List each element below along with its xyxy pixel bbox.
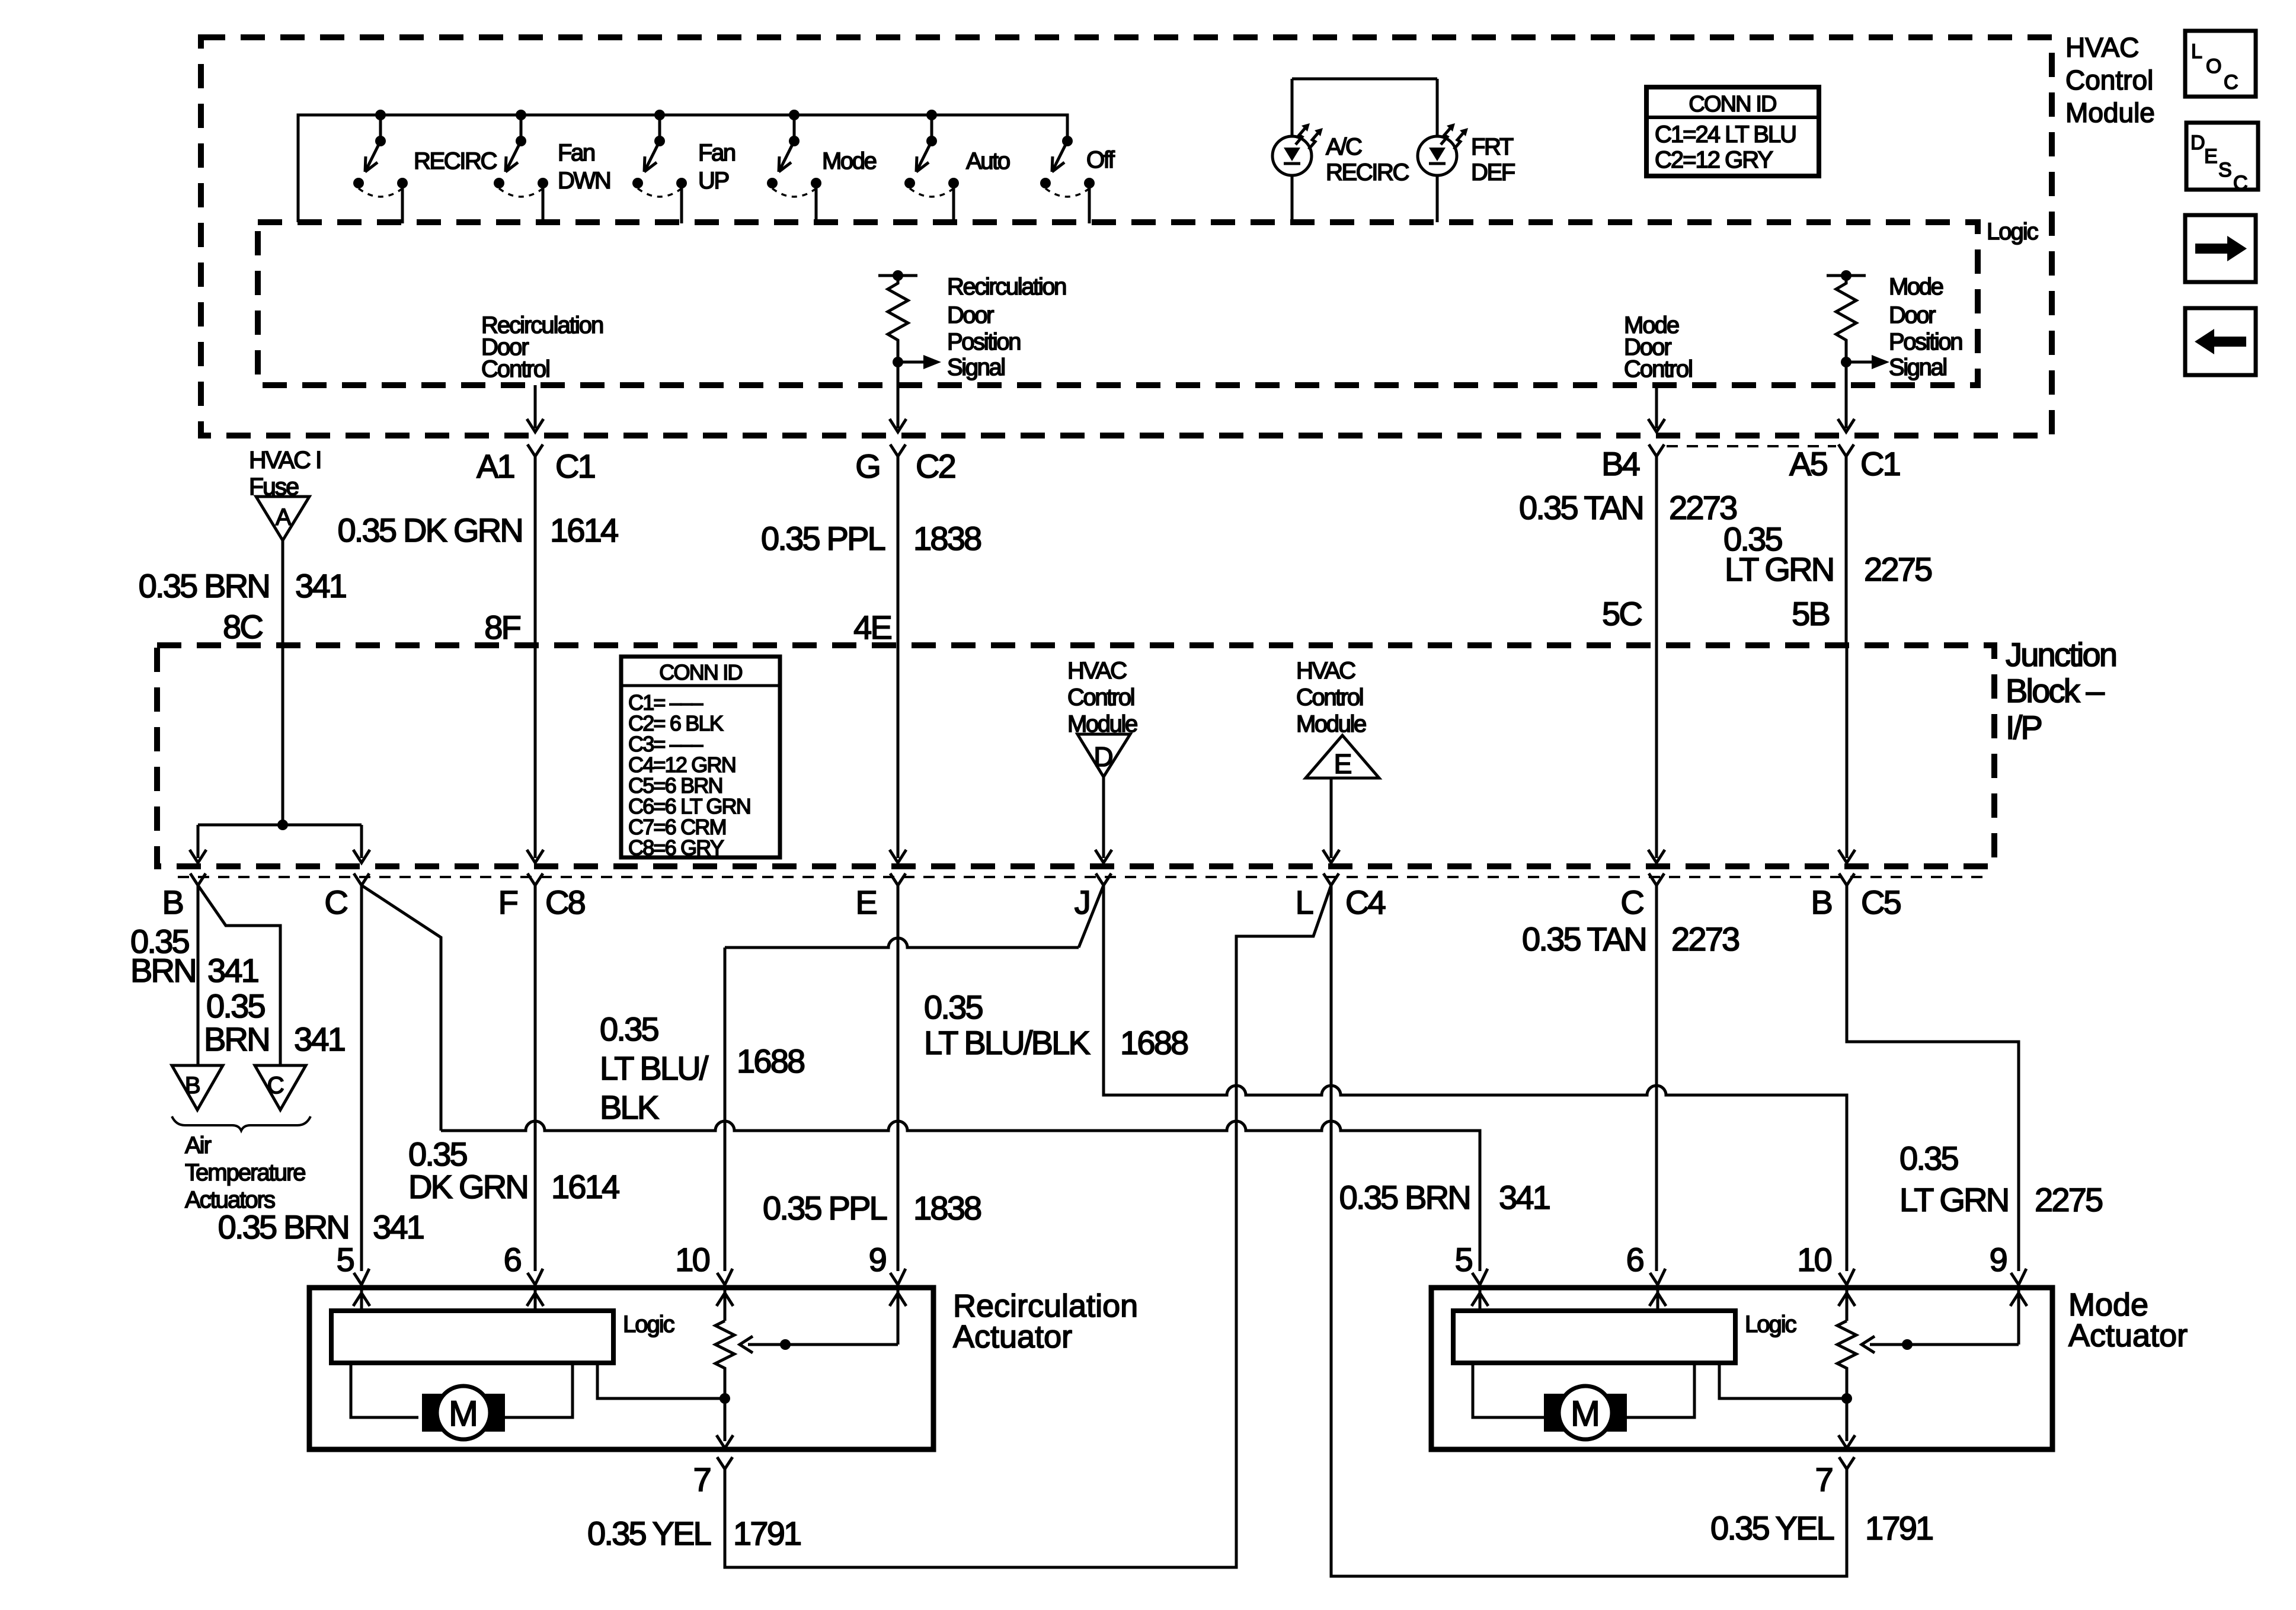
arrow recirculation pin 7 exit bbox=[717, 1435, 733, 1448]
wire switch bus bbox=[298, 115, 1067, 222]
svg-text:M: M bbox=[449, 1394, 478, 1433]
svg-text:Off: Off bbox=[1086, 147, 1115, 173]
LED FRT DEF bbox=[1418, 123, 1468, 175]
svg-text:Control: Control bbox=[481, 356, 549, 382]
svg-text:341: 341 bbox=[373, 1208, 424, 1246]
svg-text:0.35: 0.35 bbox=[206, 987, 264, 1025]
wire A5 to junction 5B bbox=[1845, 456, 1848, 645]
svg-text:B4: B4 bbox=[1601, 445, 1640, 482]
wire J to mode pin 10 bbox=[1104, 885, 1847, 1271]
svg-text:Module: Module bbox=[1296, 711, 1366, 737]
svg-text:C: C bbox=[267, 1073, 284, 1099]
svg-text:M: M bbox=[1571, 1394, 1600, 1433]
wire logic tap to potentiometer bbox=[597, 1363, 725, 1398]
svg-text:0.35 PPL: 0.35 PPL bbox=[763, 1189, 887, 1227]
wire B branch to actuator C bbox=[198, 885, 280, 1065]
svg-text:RECIRC: RECIRC bbox=[414, 148, 497, 174]
svg-text:C8: C8 bbox=[545, 884, 585, 921]
svg-text:C8=6 GRY: C8=6 GRY bbox=[628, 836, 724, 860]
arrow recirculation pin 5 entry bbox=[353, 1285, 370, 1311]
wiper arrow mode bbox=[1862, 1336, 2019, 1353]
svg-text:1614: 1614 bbox=[550, 511, 618, 549]
wire A1 output bbox=[534, 385, 537, 428]
svg-text:Temperature: Temperature bbox=[185, 1160, 305, 1186]
svg-text:1838: 1838 bbox=[913, 1189, 981, 1227]
wire A1 to junction 8F bbox=[534, 456, 537, 645]
triangle C air temperature actuator bbox=[255, 1065, 306, 1110]
svg-text:Auto: Auto bbox=[966, 148, 1010, 174]
switch Off bbox=[1040, 136, 1095, 223]
CONN ID table (junction block) bbox=[621, 657, 780, 860]
svg-text:B: B bbox=[162, 884, 183, 921]
svg-text:HVAC: HVAC bbox=[1067, 658, 1127, 684]
svg-text:1791: 1791 bbox=[733, 1515, 801, 1552]
svg-text:LT GRN: LT GRN bbox=[1900, 1181, 2008, 1218]
connector Y mode pin 5 bbox=[1472, 1269, 1488, 1285]
connector Y recirculation pin 10 bbox=[717, 1269, 733, 1285]
svg-text:0.35 YEL: 0.35 YEL bbox=[1710, 1509, 1834, 1547]
wire E to recirc pin 9 bbox=[897, 885, 900, 1271]
potentiometer mode bbox=[1837, 1321, 1856, 1441]
svg-text:0.35: 0.35 bbox=[600, 1010, 658, 1048]
node fuse bar junction bbox=[277, 820, 288, 830]
HVAC Control Module dashed box bbox=[201, 37, 2052, 436]
svg-text:341: 341 bbox=[294, 1020, 345, 1058]
arrow B (right) exit bbox=[1838, 850, 1855, 863]
svg-text:7: 7 bbox=[693, 1461, 711, 1498]
svg-text:0.35 BRN: 0.35 BRN bbox=[218, 1208, 348, 1246]
svg-text:LT BLU/BLK: LT BLU/BLK bbox=[924, 1024, 1091, 1061]
arrow recirculation pin 9 entry bbox=[890, 1285, 906, 1345]
svg-text:HVAC: HVAC bbox=[1296, 658, 1355, 684]
svg-text:2275: 2275 bbox=[1864, 550, 1932, 588]
connector Y mode pin 6 bbox=[1650, 1269, 1665, 1285]
wire fuse feed inside junction block bbox=[198, 645, 362, 858]
svg-text:C2: C2 bbox=[916, 447, 955, 485]
svg-text:Logic: Logic bbox=[1745, 1311, 1796, 1337]
connector Y E bbox=[890, 873, 906, 885]
svg-text:E: E bbox=[1334, 748, 1352, 779]
svg-text:BLK: BLK bbox=[600, 1089, 659, 1126]
switch Mode bbox=[767, 115, 821, 223]
connector Y G/C2 bbox=[890, 444, 906, 456]
connector Y A5/C1 bbox=[1838, 444, 1854, 456]
Recirculation actuator box bbox=[309, 1288, 933, 1449]
arrow C exit bbox=[353, 850, 370, 863]
svg-text:8C: 8C bbox=[223, 608, 263, 645]
svg-text:B: B bbox=[185, 1073, 200, 1099]
svg-text:8F: 8F bbox=[484, 609, 520, 646]
svg-text:BRN: BRN bbox=[130, 952, 196, 989]
svg-text:Control: Control bbox=[1296, 684, 1363, 710]
svg-text:LT GRN: LT GRN bbox=[1725, 550, 1833, 588]
svg-text:Control: Control bbox=[1624, 356, 1692, 382]
wire G output bbox=[897, 362, 900, 428]
svg-text:Logic: Logic bbox=[623, 1311, 674, 1337]
svg-text:C1: C1 bbox=[555, 447, 595, 485]
svg-text:A5: A5 bbox=[1789, 445, 1827, 482]
wire C branch to mode pin 5 bbox=[362, 885, 441, 1131]
switch Fan UP bbox=[632, 115, 687, 223]
svg-text:A: A bbox=[276, 504, 292, 530]
svg-text:E: E bbox=[855, 884, 876, 921]
svg-text:G: G bbox=[855, 447, 880, 485]
svg-text:Module: Module bbox=[2065, 97, 2155, 128]
right arrow box bbox=[2185, 215, 2256, 282]
arrow G bbox=[890, 419, 906, 432]
wire 5C pass-through bbox=[1655, 645, 1658, 858]
svg-text:D: D bbox=[2191, 132, 2205, 154]
junction block connector row thin dashed bbox=[178, 876, 1991, 878]
svg-text:Fan: Fan bbox=[698, 140, 735, 166]
svg-text:0.35 YEL: 0.35 YEL bbox=[587, 1515, 711, 1552]
svg-text:6: 6 bbox=[504, 1241, 521, 1278]
wire logic to motor right bbox=[505, 1363, 573, 1417]
svg-text:Signal: Signal bbox=[1889, 354, 1946, 380]
svg-text:Air: Air bbox=[185, 1132, 212, 1158]
wire B/C5 to mode pin 9 bbox=[1847, 885, 2019, 1271]
LOC box bbox=[2185, 31, 2256, 97]
svg-text:0.35 PPL: 0.35 PPL bbox=[761, 520, 885, 557]
connector Y mode pin 10 bbox=[1839, 1269, 1854, 1285]
DESC box bbox=[2186, 123, 2258, 194]
svg-text:Actuator: Actuator bbox=[953, 1319, 1072, 1355]
wire F/C8 to recirc pin 6 bbox=[534, 885, 537, 1271]
svg-text:Position: Position bbox=[1889, 329, 1962, 355]
svg-text:5B: 5B bbox=[1792, 595, 1829, 632]
arrow B4 bbox=[1648, 419, 1665, 432]
svg-text:10: 10 bbox=[675, 1241, 709, 1278]
connector Y B bbox=[190, 873, 206, 885]
wiper arrow recirculation bbox=[740, 1336, 898, 1353]
wire 5B pass-through bbox=[1846, 645, 1849, 858]
LED indicator assembly frame bbox=[1292, 79, 1437, 222]
svg-text:CONN ID: CONN ID bbox=[1689, 92, 1776, 117]
wire B to air temp actuator B bbox=[197, 885, 200, 1065]
svg-text:F: F bbox=[498, 884, 517, 921]
svg-text:Logic: Logic bbox=[1987, 219, 2038, 245]
triangle E HVAC Control Module bbox=[1296, 658, 1379, 863]
wire C to recirc pin 5 bbox=[360, 885, 363, 1271]
brace air temperature actuators bbox=[172, 1116, 311, 1131]
node bus junction dots bbox=[375, 110, 386, 120]
svg-text:Control: Control bbox=[2065, 65, 2153, 95]
mode logic block bbox=[1453, 1311, 1735, 1363]
left arrow box bbox=[2185, 308, 2256, 375]
potentiometer recirculation bbox=[715, 1321, 734, 1441]
arrow mode pin 9 entry bbox=[2010, 1285, 2027, 1345]
svg-text:C4: C4 bbox=[1345, 884, 1386, 921]
svg-text:0.35 TAN: 0.35 TAN bbox=[1519, 489, 1643, 526]
svg-text:Door: Door bbox=[947, 302, 994, 328]
svg-text:5: 5 bbox=[337, 1241, 354, 1278]
wire A5 output bbox=[1845, 362, 1848, 428]
svg-text:1791: 1791 bbox=[1865, 1509, 1933, 1547]
svg-text:CONN ID: CONN ID bbox=[659, 660, 742, 684]
svg-text:Block –: Block – bbox=[2006, 672, 2105, 709]
svg-text:Junction: Junction bbox=[2006, 636, 2116, 673]
svg-text:A1: A1 bbox=[477, 447, 514, 485]
wire logic tap to potentiometer bbox=[1719, 1363, 1847, 1398]
svg-text:DEF: DEF bbox=[1471, 159, 1515, 185]
wire B4 to junction 5C bbox=[1655, 456, 1658, 645]
wire L to recirc pin 7 bbox=[725, 885, 1331, 1567]
svg-text:Control: Control bbox=[1067, 684, 1134, 710]
svg-text:L: L bbox=[2191, 40, 2202, 63]
connector Y F/C8 bbox=[527, 873, 543, 885]
connector Y recirculation pin 5 bbox=[354, 1269, 369, 1285]
svg-text:0.35 DK GRN: 0.35 DK GRN bbox=[337, 511, 522, 549]
Mode actuator box bbox=[1431, 1288, 2052, 1449]
arrow B exit bbox=[190, 850, 206, 863]
svg-text:9: 9 bbox=[1990, 1241, 2007, 1278]
connector recirculation pin 7 bbox=[717, 1457, 733, 1469]
svg-text:C1: C1 bbox=[1860, 445, 1900, 482]
svg-text:341: 341 bbox=[1499, 1179, 1550, 1216]
svg-text:1838: 1838 bbox=[913, 520, 981, 557]
recirculation logic block bbox=[331, 1311, 613, 1363]
svg-text:C1=24 LT BLU: C1=24 LT BLU bbox=[1655, 121, 1796, 148]
svg-text:J: J bbox=[1075, 884, 1089, 921]
svg-text:HVAC: HVAC bbox=[2065, 32, 2139, 63]
connector Y recirculation pin 6 bbox=[527, 1269, 543, 1285]
arrow mode pin 5 entry bbox=[1472, 1285, 1488, 1311]
arrow recirculation pin 6 entry bbox=[527, 1285, 543, 1311]
svg-text:I/P: I/P bbox=[2006, 709, 2042, 746]
connector Y B4 bbox=[1649, 444, 1664, 456]
node potentiometer tap bbox=[720, 1393, 730, 1404]
wire 8F pass-through bbox=[534, 645, 537, 858]
wire logic to motor left bbox=[351, 1363, 418, 1417]
Junction Block dashed box bbox=[157, 645, 1994, 866]
connector Y C (right) bbox=[1649, 873, 1664, 885]
svg-text:HVAC I: HVAC I bbox=[249, 446, 321, 473]
wire J to recirc pin 10 bbox=[725, 885, 1104, 1271]
arrow mode pin 10 entry bbox=[1838, 1285, 1855, 1321]
svg-text:S: S bbox=[2218, 159, 2232, 181]
connector Y J bbox=[1096, 873, 1111, 885]
svg-text:C: C bbox=[2233, 172, 2248, 194]
triangle D HVAC Control Module bbox=[1067, 658, 1137, 863]
node wiper bbox=[780, 1339, 791, 1350]
svg-text:0.35: 0.35 bbox=[408, 1135, 466, 1173]
wire G to junction 4E bbox=[897, 456, 900, 645]
svg-text:A/C: A/C bbox=[1326, 134, 1362, 160]
svg-text:5C: 5C bbox=[1602, 595, 1642, 632]
svg-text:C: C bbox=[1620, 884, 1643, 921]
svg-text:2273: 2273 bbox=[1671, 920, 1739, 958]
svg-text:0.35: 0.35 bbox=[924, 988, 982, 1026]
Logic dashed box bbox=[258, 222, 1978, 385]
triangle B air temperature actuator bbox=[172, 1065, 223, 1110]
svg-text:0.35 TAN: 0.35 TAN bbox=[1522, 920, 1646, 958]
svg-text:9: 9 bbox=[869, 1241, 886, 1278]
svg-text:10: 10 bbox=[1797, 1241, 1831, 1278]
svg-text:Mode: Mode bbox=[2068, 1287, 2148, 1323]
svg-text:FRT: FRT bbox=[1471, 134, 1514, 160]
connector Y L/C4 bbox=[1323, 873, 1339, 885]
svg-text:Signal: Signal bbox=[947, 354, 1005, 380]
svg-text:Mode: Mode bbox=[1889, 274, 1943, 300]
svg-text:341: 341 bbox=[207, 952, 258, 989]
arrow A1 bbox=[527, 419, 543, 432]
LED A/C RECIRC bbox=[1272, 123, 1323, 175]
node wiper bbox=[1902, 1339, 1913, 1350]
svg-text:0.35 BRN: 0.35 BRN bbox=[1339, 1179, 1470, 1216]
svg-text:UP: UP bbox=[698, 168, 728, 194]
connector row dashed (HVAC C1) bbox=[1667, 445, 1836, 447]
motor M recirculation bbox=[422, 1386, 505, 1439]
connector Y C bbox=[354, 873, 369, 885]
svg-text:C: C bbox=[324, 884, 347, 921]
svg-text:DWN: DWN bbox=[558, 168, 610, 194]
svg-text:1688: 1688 bbox=[1120, 1024, 1188, 1061]
motor M mode bbox=[1544, 1386, 1627, 1439]
resistor recirc door position (R1) bbox=[878, 270, 941, 369]
svg-text:C5: C5 bbox=[1861, 884, 1901, 921]
svg-text:0.35: 0.35 bbox=[1900, 1140, 1958, 1177]
connector Y mode pin 9 bbox=[2011, 1269, 2026, 1285]
arrow F exit bbox=[527, 850, 543, 863]
arrow C (right) exit bbox=[1648, 850, 1665, 863]
svg-text:1688: 1688 bbox=[737, 1042, 804, 1080]
arrow mode pin 6 entry bbox=[1649, 1285, 1666, 1311]
svg-text:5: 5 bbox=[1455, 1241, 1472, 1278]
svg-text:0.35 BRN: 0.35 BRN bbox=[139, 567, 269, 604]
svg-text:1614: 1614 bbox=[551, 1168, 619, 1205]
svg-text:L: L bbox=[1296, 884, 1313, 921]
svg-text:Door: Door bbox=[1889, 302, 1936, 328]
switch Auto bbox=[904, 115, 959, 223]
svg-text:DK GRN: DK GRN bbox=[408, 1168, 527, 1205]
svg-text:RECIRC: RECIRC bbox=[1326, 159, 1409, 185]
wire 4E pass-through bbox=[897, 645, 900, 858]
connector Y recirculation pin 9 bbox=[890, 1269, 906, 1285]
wire C horizontal to mode pin 5 bbox=[441, 1121, 1480, 1271]
arrow recirculation pin 10 entry bbox=[717, 1285, 733, 1321]
arrow A5 bbox=[1838, 419, 1854, 432]
svg-text:2275: 2275 bbox=[2035, 1181, 2102, 1218]
node potentiometer tap bbox=[1841, 1393, 1852, 1404]
arrow mode pin 7 exit bbox=[1838, 1435, 1855, 1448]
svg-text:O: O bbox=[2206, 55, 2221, 78]
wire C (right) to mode pin 6 bbox=[1655, 885, 1658, 1271]
svg-text:Recirculation: Recirculation bbox=[947, 274, 1066, 300]
wire L to mode pin 7 bbox=[1331, 885, 1847, 1576]
CONN ID table (HVAC module) bbox=[1646, 87, 1819, 176]
svg-text:C: C bbox=[2224, 71, 2239, 94]
switch Fan DWN bbox=[494, 115, 548, 223]
switch RECIRC bbox=[353, 115, 408, 223]
arrow E exit bbox=[890, 850, 906, 863]
fuse A triangle bbox=[256, 497, 309, 540]
svg-text:Mode: Mode bbox=[822, 148, 877, 174]
svg-text:7: 7 bbox=[1815, 1461, 1833, 1498]
svg-text:4E: 4E bbox=[853, 609, 891, 646]
svg-text:LT BLU/: LT BLU/ bbox=[600, 1049, 709, 1087]
svg-text:6: 6 bbox=[1626, 1241, 1643, 1278]
svg-text:Fan: Fan bbox=[558, 140, 594, 166]
connector mode pin 7 bbox=[1839, 1457, 1854, 1469]
wire logic to motor right bbox=[1627, 1363, 1694, 1417]
svg-text:E: E bbox=[2204, 145, 2218, 168]
svg-text:BRN: BRN bbox=[204, 1020, 269, 1058]
svg-text:341: 341 bbox=[295, 567, 346, 604]
wire logic to motor left bbox=[1473, 1363, 1544, 1417]
svg-text:Recirculation: Recirculation bbox=[953, 1288, 1138, 1324]
connector Y B/C5 bbox=[1839, 873, 1854, 885]
resistor mode door position (R2) bbox=[1827, 270, 1889, 369]
svg-text:Position: Position bbox=[947, 329, 1020, 355]
wire fuse to junction 8C bbox=[282, 540, 284, 645]
svg-text:D: D bbox=[1093, 741, 1113, 772]
svg-text:Actuator: Actuator bbox=[2068, 1318, 2188, 1353]
svg-text:B: B bbox=[1811, 884, 1831, 921]
svg-text:C2=12 GRY: C2=12 GRY bbox=[1655, 147, 1773, 173]
connector Y A1/C1 bbox=[527, 444, 543, 456]
wire B4 output bbox=[1655, 385, 1658, 428]
